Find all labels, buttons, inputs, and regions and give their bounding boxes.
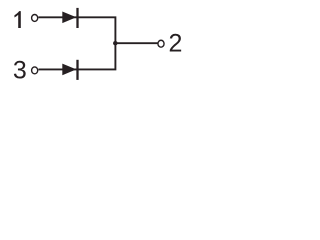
svg-text:3: 3 <box>13 56 27 84</box>
svg-text:2: 2 <box>169 30 183 58</box>
